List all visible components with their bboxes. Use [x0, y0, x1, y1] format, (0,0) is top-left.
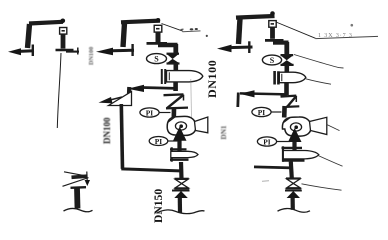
pipe break wavy drain	[64, 209, 93, 212]
wire left riser leg C	[239, 19, 241, 45]
leader from solenoid C	[294, 55, 344, 69]
pipe B flowmeter to tee	[173, 82, 178, 91]
wire bypass corner C	[236, 93, 239, 108]
gauge PI1 B	[140, 108, 159, 117]
wire bypass pipe B	[121, 104, 122, 169]
solenoid valve body B	[167, 53, 180, 55]
wire top pipe A	[29, 22, 63, 24]
wire bypass return B	[121, 169, 183, 171]
flowmeter B flange	[162, 69, 165, 84]
svg-text:PI: PI	[258, 108, 266, 117]
pipe C joint to valve	[291, 162, 292, 179]
leader from pump C	[327, 125, 340, 131]
flange C vent	[265, 39, 284, 42]
flange B vent	[147, 42, 168, 45]
faint dash C	[262, 180, 269, 183]
svg-text:DN100: DN100	[88, 47, 95, 65]
expansion joint B	[170, 148, 187, 150]
pipe C flowmeter to tee	[284, 83, 289, 96]
wire bypass top B	[142, 86, 176, 90]
wire elbow B	[158, 43, 178, 47]
pipe B bottom	[178, 198, 182, 213]
flowmeter C flange	[275, 71, 279, 85]
pipe break wavy C	[278, 209, 311, 213]
flange tick A	[32, 45, 34, 57]
leader from joint C	[318, 156, 343, 167]
pipe C vent riser	[270, 28, 275, 39]
pump B discharge cone	[195, 117, 208, 133]
drain line A (thin droop)	[57, 53, 61, 128]
pipe C Z to pump	[282, 106, 287, 118]
pipe C bottom	[291, 198, 295, 210]
pipe C valve to flowmeter	[284, 65, 289, 73]
faint scan line	[190, 79, 193, 118]
flow arrow A	[8, 48, 21, 55]
check valve Z (C)	[281, 96, 297, 97]
flow arrow bypass B	[128, 85, 145, 92]
gauge PI2 C	[257, 137, 276, 146]
funnel bar	[72, 176, 88, 177]
pump B suction arrow	[177, 140, 181, 158]
pipe B joint to valve	[179, 162, 184, 179]
solenoid actuator S (C)	[262, 55, 281, 65]
flange tick B	[131, 44, 133, 56]
gate valve B	[175, 178, 189, 180]
air vent fitting A	[61, 19, 66, 24]
flowmeter B body	[167, 71, 203, 82]
pipe B valve to flowmeter	[174, 64, 179, 71]
wire left riser leg B	[123, 23, 125, 47]
gauge PI2 B	[149, 137, 168, 146]
svg-text:DN100: DN100	[102, 117, 112, 144]
check valve C	[285, 190, 302, 192]
leader callout C	[276, 22, 316, 38]
flowmeter C body	[279, 72, 306, 83]
wire elbow C	[273, 40, 289, 44]
wire top pipe C	[236, 16, 275, 18]
expansion joint C	[282, 147, 303, 149]
air vent fitting C	[270, 11, 275, 16]
pipe drain	[74, 188, 80, 209]
wire top pipe B	[121, 21, 160, 23]
pump B volute	[167, 116, 196, 135]
pump C volute	[282, 117, 311, 136]
side stub A	[66, 51, 79, 53]
pipe break wavy B	[157, 210, 205, 214]
drain arrow	[86, 172, 88, 182]
tiny callout underline B	[183, 30, 201, 33]
solenoid actuator S (B)	[147, 54, 167, 64]
leader line B top	[162, 24, 184, 32]
svg-text:DN100: DN100	[205, 60, 219, 98]
air vent fitting B	[156, 18, 161, 23]
svg-text:PI: PI	[263, 137, 271, 146]
wire bypass top C	[240, 93, 287, 94]
flange drain	[71, 186, 87, 189]
flow arrow B	[96, 48, 113, 56]
wire outlet stub A	[16, 49, 34, 53]
gate valve C	[286, 177, 301, 179]
check valve B	[172, 190, 190, 192]
svg-text:S: S	[270, 56, 275, 65]
gauge PI1 C	[252, 107, 271, 116]
check valve Z (B)	[164, 93, 184, 96]
wire outlet stub B	[112, 49, 134, 53]
flange tick C	[248, 41, 250, 53]
flow arrow bypass C	[240, 90, 255, 97]
funnel diagonal lines	[63, 178, 89, 187]
svg-text:DN1: DN1	[220, 125, 228, 139]
svg-text:PI: PI	[146, 108, 154, 117]
wire bypass corner B	[127, 87, 132, 99]
relief valve B	[109, 92, 132, 106]
flange A vent	[56, 49, 74, 52]
pipe B Z to pump	[172, 108, 177, 119]
svg-text:PI: PI	[155, 137, 163, 146]
pump C discharge cone	[310, 117, 327, 134]
pump C suction arrow	[292, 141, 296, 159]
wire bypass return C	[254, 167, 292, 168]
flow arrow C	[217, 45, 232, 53]
svg-text:S: S	[154, 54, 159, 63]
leader from valve C	[302, 184, 342, 190]
tiny annotation marks B	[181, 28, 184, 31]
wire outlet stub C	[229, 46, 253, 50]
leader from flowmeter C	[306, 79, 331, 84]
wire left riser leg A	[28, 24, 30, 48]
pipe A vent riser	[61, 34, 66, 49]
svg-text:1 3X 3·7 3: 1 3X 3·7 3	[318, 33, 353, 39]
solenoid valve body C	[281, 54, 294, 56]
svg-text:DN150: DN150	[152, 189, 165, 223]
pipe B vent riser	[156, 32, 161, 43]
